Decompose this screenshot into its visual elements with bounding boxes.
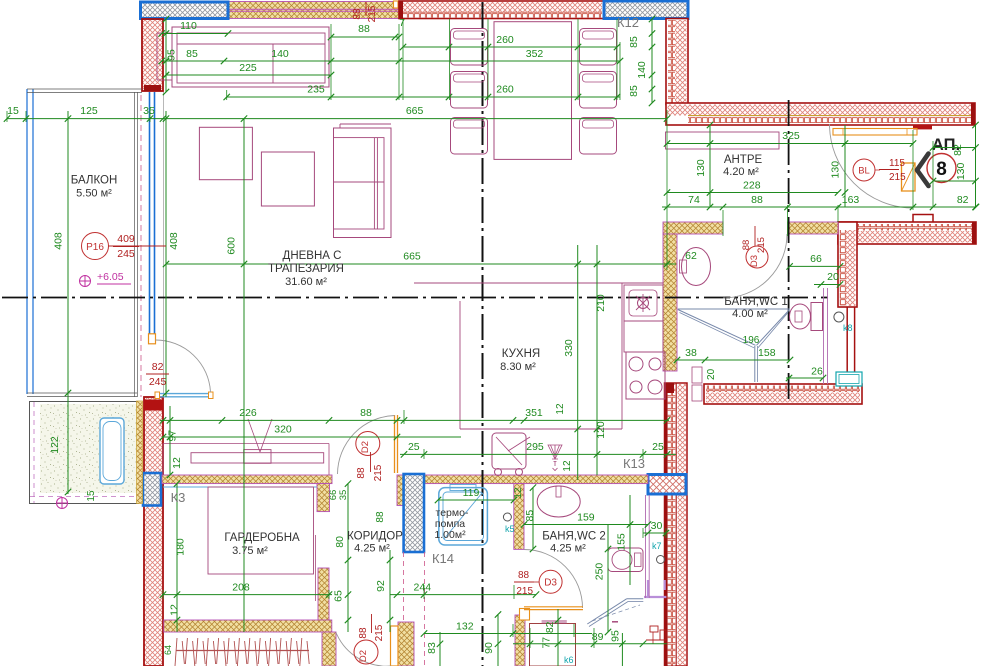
hanger strokes	[175, 638, 177, 666]
door D2 leaf	[394, 415, 396, 473]
svg-text:132: 132	[456, 621, 474, 633]
wall Y2b antre-bath	[788, 222, 839, 234]
dim 325	[667, 143, 913, 145]
antre shelf ticks	[842, 129, 844, 136]
svg-text:12: 12	[562, 460, 573, 472]
svg-text:85: 85	[186, 48, 198, 60]
wall W4 brick	[688, 117, 974, 124]
wall W7 hatch	[678, 384, 687, 666]
wardrobe upper outline	[163, 443, 329, 445]
dashed property line	[140, 95, 142, 397]
wall Y5 wardrobe T	[318, 568, 329, 629]
wall W4 vertical	[666, 19, 688, 105]
wall W6 hatch	[706, 393, 860, 403]
dim 330	[577, 245, 579, 480]
dim 408 right	[165, 111, 167, 397]
wall W4 innerline	[688, 115, 974, 117]
svg-text:97: 97	[167, 430, 179, 442]
terrace dashed h	[30, 496, 138, 498]
wc2 k7 circle	[657, 556, 665, 564]
wc1 shelves	[692, 367, 702, 383]
svg-text:k6: k6	[564, 655, 574, 665]
door frame wc2	[520, 609, 530, 621]
svg-text:35: 35	[338, 490, 349, 501]
door BL circle	[853, 159, 875, 181]
wc2 shaft lines	[645, 495, 647, 598]
dim 26	[786, 377, 823, 379]
wall W5 cap	[972, 222, 976, 244]
wc1 toilet bowl	[790, 304, 811, 329]
svg-text:320: 320	[274, 424, 292, 436]
sofa top	[172, 27, 329, 87]
chair right 2	[580, 72, 617, 109]
wall Y3d end	[317, 484, 330, 512]
wall W5v hatch	[846, 230, 856, 306]
dim 66	[790, 265, 840, 267]
svg-text:12: 12	[171, 457, 183, 469]
svg-text:158: 158	[758, 347, 776, 359]
svg-text:228: 228	[743, 179, 761, 191]
dim 155	[629, 495, 631, 585]
dim 89	[513, 643, 667, 645]
dim 97-12	[169, 406, 171, 475]
chair right 3	[580, 118, 617, 155]
door D3 wc1 circle	[746, 246, 768, 268]
svg-text:D2: D2	[360, 441, 371, 453]
svg-text:130: 130	[955, 162, 967, 180]
dim 244	[390, 594, 536, 596]
dim 25-295-25	[400, 453, 676, 455]
AP circle	[927, 154, 956, 183]
svg-text:260: 260	[496, 34, 514, 46]
wall Y3b	[397, 475, 404, 506]
svg-text:БАНЯ,WC 2: БАНЯ,WC 2	[542, 531, 606, 543]
wc1 basin	[682, 248, 711, 286]
wall Y2a antre-bath	[663, 222, 723, 234]
svg-text:95: 95	[166, 49, 178, 61]
heat pump top	[450, 485, 476, 491]
dim 110	[162, 33, 228, 35]
k6 valves	[650, 626, 658, 632]
terrace yellow strip	[137, 401, 143, 504]
balcony window right	[149, 92, 151, 334]
wall W2 brick	[401, 12, 602, 18]
svg-text:82: 82	[952, 144, 964, 156]
window cap orange	[149, 334, 156, 344]
svg-text:30: 30	[651, 520, 663, 532]
balcony top edge	[27, 88, 142, 90]
svg-text:244: 244	[414, 582, 432, 594]
svg-text:4.25 м²: 4.25 м²	[550, 543, 586, 555]
svg-text:К3: К3	[171, 490, 186, 505]
extension lines	[402, 19, 404, 100]
svg-text:90: 90	[483, 642, 495, 654]
wc2 door D3 arc	[524, 550, 583, 609]
door D2b circle	[354, 640, 378, 664]
sofa divider	[272, 44, 274, 83]
column K13	[648, 475, 686, 495]
dim 260 top	[403, 46, 617, 48]
dim 83	[439, 632, 441, 666]
dim 85-140-352	[162, 60, 620, 62]
wall W5 hatch	[840, 231, 974, 243]
svg-text:119: 119	[463, 487, 480, 499]
wc1 shaft lines	[823, 288, 825, 384]
svg-text:15: 15	[7, 105, 19, 117]
svg-text:ТРАПЕЗАРИЯ: ТРАПЕЗАРИЯ	[268, 263, 344, 275]
wall W7 midline	[675, 383, 677, 666]
terrace floor	[40, 404, 138, 493]
kitchen counter bottom	[460, 428, 622, 430]
svg-text:208: 208	[232, 582, 250, 594]
wall W7	[665, 383, 688, 666]
wc1 teal box	[836, 372, 862, 386]
heat pump inner	[443, 492, 484, 541]
wc2 shower dash	[592, 605, 640, 621]
bathtub inner	[103, 422, 121, 481]
dim 226-88-351	[160, 419, 669, 421]
wardrobe shelf	[191, 453, 324, 463]
wall W7 brick	[668, 384, 676, 666]
svg-text:35: 35	[143, 105, 155, 117]
wc1 shower post	[754, 346, 756, 382]
wall Y3c corridor top	[424, 475, 648, 484]
dim 250	[607, 525, 609, 633]
svg-text:88: 88	[518, 570, 530, 581]
sofa right outer	[334, 128, 392, 238]
svg-text:20: 20	[827, 271, 839, 283]
wall Y6v end	[322, 632, 336, 666]
column K3	[143, 473, 161, 506]
svg-text:215: 215	[373, 464, 384, 481]
wall W5 vertical	[838, 222, 857, 307]
dim 85 wc2	[532, 488, 534, 549]
svg-text:140: 140	[636, 61, 648, 79]
wardrobe box	[208, 487, 314, 574]
stove	[626, 352, 665, 399]
door D2 arc	[338, 416, 395, 475]
dim 159	[524, 524, 648, 526]
svg-text:БАНЯ,WC 1: БАНЯ,WC 1	[724, 296, 788, 308]
dim right connectors	[933, 147, 976, 149]
svg-text:БАЛКОН: БАЛКОН	[71, 175, 118, 187]
svg-text:110: 110	[180, 20, 197, 32]
wall W5 brick	[840, 224, 974, 231]
svg-text:D3: D3	[544, 578, 557, 589]
table sq1	[199, 127, 252, 179]
wall Y8 vertical	[515, 615, 525, 666]
svg-text:1.00м²: 1.00м²	[434, 529, 466, 541]
terrace outline	[30, 402, 139, 504]
sofa right inner	[334, 138, 385, 229]
sofa top inner	[177, 33, 325, 83]
wc1 k8 circle	[834, 312, 844, 322]
sofa seat	[157, 32, 172, 34]
svg-text:5.50 м²: 5.50 м²	[76, 188, 112, 200]
svg-text:180: 180	[175, 538, 187, 556]
door D2b arc	[336, 633, 391, 666]
P16 leader	[109, 245, 167, 247]
svg-text:250: 250	[594, 563, 606, 581]
dim 665 top	[7, 118, 667, 120]
svg-text:k8: k8	[843, 323, 853, 333]
wall Y4 wc2 left	[514, 484, 524, 550]
wc2 shaft purple	[644, 580, 666, 597]
wall W4 hatch	[668, 105, 974, 116]
svg-text:245: 245	[149, 376, 167, 388]
svg-text:62: 62	[685, 250, 697, 262]
washing machine	[530, 624, 576, 666]
column K14	[404, 474, 424, 552]
dim 20	[814, 284, 840, 286]
svg-text:D3: D3	[749, 255, 760, 267]
wall W4v hatch	[675, 20, 687, 104]
svg-text:85: 85	[628, 85, 640, 97]
dim 180-12	[176, 484, 178, 632]
wc1 door arc	[723, 234, 787, 298]
wc1 shower diag1	[678, 310, 756, 346]
chair left 3	[451, 118, 488, 155]
dim 90	[497, 614, 499, 666]
wall W1	[142, 19, 163, 91]
wall W7 cap	[665, 383, 674, 393]
svg-text:31.60 м²: 31.60 м²	[285, 276, 327, 288]
svg-text:88: 88	[352, 8, 363, 20]
svg-text:215: 215	[516, 586, 533, 597]
svg-text:600: 600	[225, 237, 237, 255]
wc1 shower diag2	[757, 310, 790, 346]
wall W2	[399, 1, 604, 19]
wc1 shower top	[678, 308, 790, 310]
svg-text:130: 130	[830, 161, 842, 179]
wall W5 bump top	[913, 215, 933, 223]
sofa right foot	[339, 124, 341, 128]
kitchen counter inner	[621, 283, 623, 429]
axis horizontal	[2, 297, 828, 299]
svg-text:115: 115	[889, 158, 905, 169]
wall Y2v kitchen-bath	[663, 234, 677, 371]
entrance arrow	[917, 154, 929, 187]
wall W5v brick	[840, 230, 847, 306]
svg-text:К13: К13	[623, 456, 645, 471]
svg-text:ДНЕВНА С: ДНЕВНА С	[283, 250, 342, 262]
svg-text:26: 26	[811, 366, 823, 378]
chair left 2	[451, 72, 488, 109]
dim 130 a	[709, 125, 711, 207]
svg-text:АНТРЕ: АНТРЕ	[724, 154, 763, 166]
wc2 shower	[587, 599, 627, 624]
svg-text:89: 89	[592, 631, 604, 643]
svg-text:80: 80	[334, 536, 346, 548]
chair right 1	[580, 29, 617, 66]
svg-text:4.20 м²: 4.20 м²	[723, 166, 759, 178]
svg-text:665: 665	[406, 105, 424, 117]
wc2 toilet bowl	[612, 550, 632, 569]
heat pump diag	[444, 493, 482, 539]
svg-text:140: 140	[271, 48, 289, 60]
kitchen sink bowl	[629, 290, 657, 316]
corridor dashed	[403, 552, 405, 620]
svg-text:163: 163	[842, 194, 860, 206]
svg-text:КУХНЯ: КУХНЯ	[502, 348, 540, 360]
svg-text:215: 215	[367, 5, 378, 22]
svg-text:83: 83	[426, 642, 438, 654]
svg-text:BL: BL	[858, 166, 870, 177]
svg-text:12: 12	[513, 487, 524, 499]
svg-text:325: 325	[782, 130, 800, 142]
svg-text:408: 408	[53, 232, 65, 250]
svg-text:122: 122	[49, 436, 61, 454]
svg-text:88: 88	[751, 194, 763, 206]
svg-text:15: 15	[86, 490, 97, 502]
level mark	[80, 276, 91, 287]
wall sill band top	[228, 2, 399, 19]
wall W8	[144, 397, 163, 666]
svg-text:88: 88	[358, 23, 370, 35]
svg-text:88: 88	[356, 467, 367, 479]
svg-text:130: 130	[695, 159, 707, 177]
svg-text:38: 38	[685, 347, 697, 359]
wall W5 horizontal	[838, 222, 976, 244]
balcony bottom rail	[27, 392, 137, 394]
wall W4 horizontal	[666, 103, 975, 125]
balcony rail left	[26, 89, 28, 394]
heat pump k5 circle	[503, 513, 511, 521]
bathtub	[100, 418, 124, 484]
door frame bottom	[391, 626, 399, 666]
wall W7 dark	[665, 383, 668, 666]
svg-text:215: 215	[374, 624, 385, 641]
orange frame top	[394, 1, 399, 8]
wall W8 cap	[144, 400, 163, 411]
kitchen star	[636, 294, 650, 312]
dim 119	[438, 499, 514, 501]
svg-text:К14: К14	[432, 551, 454, 566]
balcony reveal lines	[134, 92, 136, 397]
kitchen mid box	[624, 321, 663, 352]
hanger rail	[176, 650, 309, 652]
wall Y6 bottom	[164, 620, 332, 632]
wall W2 cap	[399, 1, 403, 19]
dim 88-7	[331, 36, 399, 38]
dim 225	[166, 74, 331, 76]
sofa right back	[373, 138, 375, 229]
antre shelf orange	[833, 129, 917, 136]
wardrobe inner line	[315, 535, 317, 601]
svg-text:88: 88	[360, 407, 372, 419]
dim 235-260	[227, 96, 620, 98]
svg-text:+6.05: +6.05	[97, 271, 124, 283]
svg-text:352: 352	[526, 48, 544, 60]
dim 95 sofa	[165, 19, 167, 92]
dim 38-158	[675, 359, 790, 361]
svg-text:20: 20	[706, 368, 717, 380]
svg-text:ГАРДЕРОБНА: ГАРДЕРОБНА	[224, 532, 300, 544]
dim 132	[424, 633, 592, 635]
svg-text:260: 260	[496, 84, 514, 96]
svg-text:7: 7	[399, 17, 405, 29]
dining table	[494, 22, 572, 160]
balcony door caps	[155, 392, 160, 399]
svg-text:409: 409	[117, 233, 135, 245]
terrace mark	[57, 498, 68, 509]
kitchen sink box	[624, 285, 663, 321]
dim 665 mid	[166, 263, 676, 265]
axis vertical B	[788, 100, 790, 404]
svg-text:КОРИДОР: КОРИДОР	[347, 531, 403, 543]
sofa back line	[177, 43, 325, 45]
svg-text:92: 92	[375, 580, 387, 592]
svg-text:245: 245	[117, 248, 135, 260]
door D2 circle	[356, 432, 380, 456]
svg-text:235: 235	[307, 84, 325, 96]
wall W4 cap right	[971, 103, 975, 125]
dim 600	[243, 119, 245, 632]
svg-text:k7: k7	[652, 541, 662, 551]
svg-text:12: 12	[168, 604, 180, 616]
dim 228	[667, 192, 838, 194]
dim 82-77	[557, 609, 559, 666]
svg-text:85: 85	[524, 510, 536, 522]
svg-text:4.00 м²: 4.00 м²	[732, 308, 768, 320]
svg-text:665: 665	[403, 251, 421, 263]
dim 92	[389, 550, 391, 632]
svg-text:65: 65	[333, 590, 345, 602]
dim 208	[162, 594, 332, 596]
svg-text:88: 88	[375, 511, 386, 523]
svg-text:77: 77	[541, 637, 553, 649]
svg-text:82: 82	[544, 621, 556, 633]
svg-text:210: 210	[595, 294, 607, 312]
wardrobe leader	[248, 419, 260, 452]
antre cabinet	[666, 132, 780, 149]
wall W4 bump	[913, 125, 932, 130]
svg-text:25: 25	[652, 441, 664, 453]
dim 74-88-163-82	[662, 206, 976, 208]
svg-text:3.75 м²: 3.75 м²	[232, 545, 268, 557]
svg-text:408: 408	[168, 232, 180, 250]
svg-text:226: 226	[239, 407, 257, 419]
svg-text:К12: К12	[617, 15, 639, 30]
wall W1 cap	[144, 85, 161, 91]
sofa right mid	[334, 181, 385, 183]
axis vertical A	[482, 2, 484, 666]
stove burners	[629, 357, 643, 371]
wc1 toilet tank	[811, 303, 823, 331]
svg-text:330: 330	[563, 339, 575, 357]
wall W6	[704, 384, 862, 404]
wc2 toilet	[608, 548, 643, 572]
svg-text:12: 12	[555, 403, 566, 415]
svg-text:295: 295	[526, 441, 544, 453]
window top-left	[141, 2, 229, 19]
sill line	[228, 8, 399, 10]
svg-text:351: 351	[525, 407, 543, 419]
svg-text:95: 95	[610, 630, 622, 642]
dim 320	[162, 436, 461, 438]
heat pump box	[439, 488, 488, 545]
dim 95	[621, 633, 623, 666]
svg-text:D2: D2	[358, 650, 369, 662]
dim 130 b	[844, 125, 846, 207]
wall Y3a wardrobe top	[162, 475, 332, 484]
wc2 door D3 leaf	[524, 606, 583, 608]
balcony door leaf	[157, 393, 211, 395]
terrace dashed v	[33, 402, 35, 503]
dim 85-140-85	[651, 19, 653, 103]
svg-text:64: 64	[163, 645, 173, 655]
dim 210-120	[596, 245, 598, 475]
